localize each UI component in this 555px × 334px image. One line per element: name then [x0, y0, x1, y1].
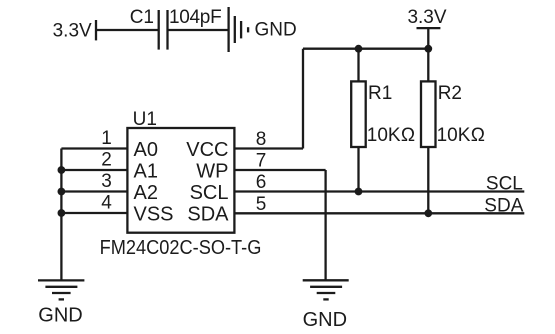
node junction R2/SDA	[424, 209, 432, 217]
svg-text:R1: R1	[368, 83, 392, 104]
resistor R1	[351, 81, 415, 147]
node 3.3V (top right)	[407, 7, 446, 49]
svg-text:2: 2	[101, 150, 112, 171]
wire R1 top stub	[357, 49, 359, 82]
pin 6 SCL	[190, 172, 525, 204]
node junction R1 top	[355, 45, 363, 53]
svg-text:GND: GND	[38, 304, 82, 326]
pin 2 A1	[61, 150, 158, 183]
node junction 3.3V corner	[424, 45, 432, 53]
svg-text:3.3V: 3.3V	[407, 7, 446, 28]
svg-text:WP: WP	[196, 161, 228, 183]
svg-text:Ω: Ω	[401, 125, 415, 146]
wire R2 top stub	[427, 49, 429, 82]
svg-text:104pF: 104pF	[169, 7, 221, 28]
svg-text:10K: 10K	[367, 125, 401, 146]
svg-text:3: 3	[101, 171, 112, 192]
node junction pin4	[58, 209, 66, 217]
svg-text:8: 8	[256, 129, 267, 150]
svg-text:U1: U1	[133, 109, 157, 130]
svg-text:SDA: SDA	[484, 196, 523, 217]
svg-text:VCC: VCC	[186, 139, 228, 161]
pin 3 A2	[61, 171, 158, 204]
wire 3.3V to C1	[96, 29, 159, 31]
capacitor C1	[130, 7, 222, 50]
svg-text:A1: A1	[134, 161, 158, 183]
svg-text:SCL: SCL	[486, 174, 523, 195]
svg-text:A0: A0	[134, 139, 158, 161]
pin 5 SDA	[187, 194, 524, 226]
pin 4 VSS	[61, 193, 173, 226]
svg-text:4: 4	[101, 193, 112, 214]
wire WP drop to ground	[324, 170, 326, 280]
pin 7 WP	[196, 151, 325, 183]
pin 8 VCC	[186, 129, 303, 161]
svg-text:GND: GND	[255, 19, 297, 40]
svg-text:7: 7	[256, 151, 267, 172]
wire R2 bottom stub	[427, 147, 429, 213]
op-amp U1 body (IC FM24C02C)	[100, 109, 262, 259]
node junction pin2	[58, 166, 66, 174]
svg-text:R2: R2	[438, 83, 462, 104]
svg-text:SDA: SDA	[187, 204, 229, 226]
ground (bottom left)	[38, 280, 84, 326]
svg-text:FM24C02C-SO-T-G: FM24C02C-SO-T-G	[100, 237, 262, 259]
svg-text:A2: A2	[134, 182, 158, 204]
node junction pin3	[58, 188, 66, 196]
svg-text:3.3V: 3.3V	[53, 21, 92, 42]
pin 1 A0	[61, 128, 158, 161]
wire VCC riser	[302, 49, 304, 149]
svg-text:5: 5	[256, 194, 267, 215]
node junction R1/SCL	[355, 188, 363, 196]
wire VCC top rail	[303, 48, 428, 50]
ground (bottom middle)	[303, 280, 349, 331]
resistor R2	[421, 81, 485, 147]
svg-text:6: 6	[256, 172, 267, 193]
svg-text:VSS: VSS	[134, 204, 174, 226]
ground (top, sideways)	[229, 7, 297, 52]
wire R1 bottom stub	[357, 147, 359, 192]
svg-text:Ω: Ω	[471, 125, 485, 146]
svg-text:GND: GND	[303, 309, 347, 331]
svg-text:1: 1	[101, 128, 112, 149]
svg-text:SCL: SCL	[190, 182, 229, 204]
wire C1 to ground	[168, 29, 229, 31]
svg-text:C1: C1	[130, 7, 154, 28]
node 3.3V (top left)	[53, 20, 96, 42]
wire left bus vertical	[60, 149, 62, 281]
svg-text:10K: 10K	[437, 125, 471, 146]
